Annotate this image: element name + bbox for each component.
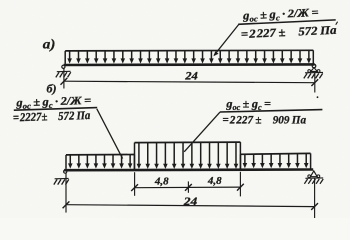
svg-text:4,8: 4,8 [207,175,222,187]
svg-text:= 2 227 ± 909 Па: = 2 227 ± 909 Па [222,113,306,126]
svg-text:24: 24 [184,69,198,82]
svg-text:а): а) [43,37,56,52]
svg-text:gос ± gс =: gос ± gс = [225,97,271,112]
svg-text:24: 24 [183,195,198,208]
svg-text:= 2227± 572 Па: = 2227± 572 Па [13,110,91,125]
svg-text:б): б) [47,82,57,96]
svg-text:4,8: 4,8 [154,175,169,187]
